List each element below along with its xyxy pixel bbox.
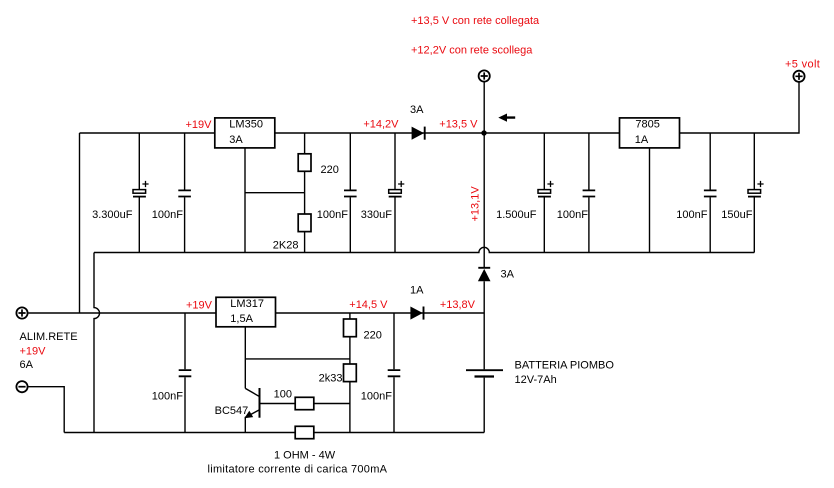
- wire LM350 ground pin: [244, 148, 246, 253]
- svg-text:100nF: 100nF: [152, 391, 183, 403]
- capacitor C1 3.300uF: [92, 133, 148, 253]
- wire bottom rail left: [64, 432, 295, 434]
- terminal +13,5V output: [479, 70, 490, 81]
- svg-text:6A: 6A: [20, 359, 34, 371]
- capacitor C10 100nF: [361, 313, 401, 433]
- svg-text:+13,1V: +13,1V: [470, 186, 482, 222]
- wire ground left drop with hop: [94, 253, 100, 433]
- wire node down to diode: [483, 133, 485, 267]
- svg-text:1A: 1A: [410, 285, 424, 297]
- svg-text:150uF: 150uF: [721, 209, 752, 221]
- svg-text:+14,2V: +14,2V: [363, 119, 399, 131]
- svg-text:100: 100: [274, 389, 292, 401]
- diode D2 1A: [410, 285, 424, 320]
- svg-text:3A: 3A: [501, 269, 515, 281]
- svg-text:100nF: 100nF: [557, 209, 588, 221]
- svg-text:3A: 3A: [229, 134, 243, 146]
- wire adj to divider: [245, 358, 350, 360]
- svg-text:100nF: 100nF: [317, 209, 348, 221]
- svg-text:BC547: BC547: [215, 405, 249, 417]
- wire top rail right: [680, 83, 800, 134]
- svg-text:100nF: 100nF: [676, 209, 707, 221]
- svg-text:LM317: LM317: [230, 298, 264, 310]
- wire resistor to divider: [314, 403, 350, 405]
- svg-text:ALIM.RETE: ALIM.RETE: [20, 331, 78, 343]
- wire LM317 adj pin: [244, 327, 246, 389]
- wire bottom rail right: [314, 432, 484, 434]
- node junction dot: [481, 130, 486, 135]
- capacitor C9 100nF: [152, 313, 192, 433]
- svg-text:+14,5 V: +14,5 V: [349, 299, 388, 311]
- resistor R1 220: [298, 133, 339, 214]
- svg-text:1,5A: 1,5A: [230, 313, 253, 325]
- svg-text:2K28: 2K28: [273, 240, 299, 252]
- wire LM350 adj link: [245, 192, 305, 194]
- resistor R3 220: [344, 313, 382, 364]
- wire 7805 ground pin: [649, 148, 651, 253]
- svg-text:+19V: +19V: [186, 119, 213, 131]
- svg-text:1 OHM - 4W: 1 OHM - 4W: [274, 450, 336, 462]
- wire base to resistor: [260, 403, 296, 405]
- svg-text:100nF: 100nF: [152, 209, 183, 221]
- svg-text:1A: 1A: [635, 134, 649, 146]
- svg-text:12V-7Ah: 12V-7Ah: [515, 374, 557, 386]
- wire left input vertical: [79, 133, 81, 313]
- wire input rail lower: [28, 312, 216, 314]
- wire diode to battery node: [483, 281, 485, 313]
- wire top rail middle: [275, 132, 620, 134]
- wire top rail left: [80, 132, 216, 134]
- svg-text:+19V: +19V: [186, 300, 213, 312]
- capacitor C7 100nF: [676, 133, 716, 253]
- resistor R5 100: [274, 389, 314, 410]
- diode D3 3A to battery rail: [478, 268, 515, 282]
- resistor R6 1 OHM 4W: [295, 426, 314, 438]
- svg-text:+13,5 V: +13,5 V: [439, 118, 478, 130]
- svg-text:BATTERIA PIOMBO: BATTERIA PIOMBO: [515, 360, 615, 372]
- capacitor C5 1.500uF: [496, 133, 553, 253]
- resistor R4 2k33: [319, 364, 357, 433]
- battery B1 lead acid: [466, 313, 614, 433]
- wire LM317 output: [276, 312, 485, 314]
- regulator U3 LM317: [186, 297, 276, 327]
- svg-text:220: 220: [321, 164, 339, 176]
- capacitor C4 330uF: [361, 133, 405, 253]
- svg-text:3A: 3A: [410, 104, 424, 116]
- arrow current direction: [498, 114, 515, 122]
- capacitor C8 150uF: [721, 133, 763, 253]
- transistor Q1 BC547: [215, 388, 260, 433]
- wire terminal to node: [483, 82, 485, 133]
- terminal +5 volt: [785, 59, 820, 82]
- diode D1 3A: [410, 104, 425, 140]
- svg-text:1.500uF: 1.500uF: [496, 209, 537, 221]
- svg-text:+5 volt: +5 volt: [785, 59, 820, 71]
- svg-text:LM350: LM350: [229, 119, 263, 131]
- wire ground rail with hop: [94, 247, 754, 252]
- capacitor C6 100nF: [557, 133, 595, 253]
- regulator U2 7805: [620, 118, 680, 148]
- regulator U1 LM350: [186, 118, 275, 148]
- svg-text:2k33: 2k33: [319, 373, 343, 385]
- terminal plus ALIM.RETE: [16, 307, 27, 318]
- svg-text:+19V: +19V: [20, 346, 47, 358]
- svg-text:7805: 7805: [635, 119, 659, 131]
- svg-text:100nF: 100nF: [361, 391, 392, 403]
- svg-text:+12,2V con rete scollega: +12,2V con rete scollega: [411, 45, 533, 57]
- terminal minus ALIM.RETE: [16, 381, 27, 392]
- svg-text:+13,5 V con rete collegata: +13,5 V con rete collegata: [411, 15, 540, 27]
- svg-text:limitatore corrente di carica: limitatore corrente di carica 700mA: [208, 464, 388, 476]
- wire minus terminal to bottom rail: [28, 387, 64, 433]
- capacitor C3 100nF: [317, 133, 357, 253]
- svg-text:3.300uF: 3.300uF: [92, 209, 133, 221]
- svg-text:220: 220: [364, 330, 382, 342]
- svg-text:+13,8V: +13,8V: [440, 299, 476, 311]
- capacitor C2 100nF: [152, 133, 191, 253]
- svg-text:330uF: 330uF: [361, 209, 392, 221]
- resistor R2 2K28: [273, 214, 311, 253]
